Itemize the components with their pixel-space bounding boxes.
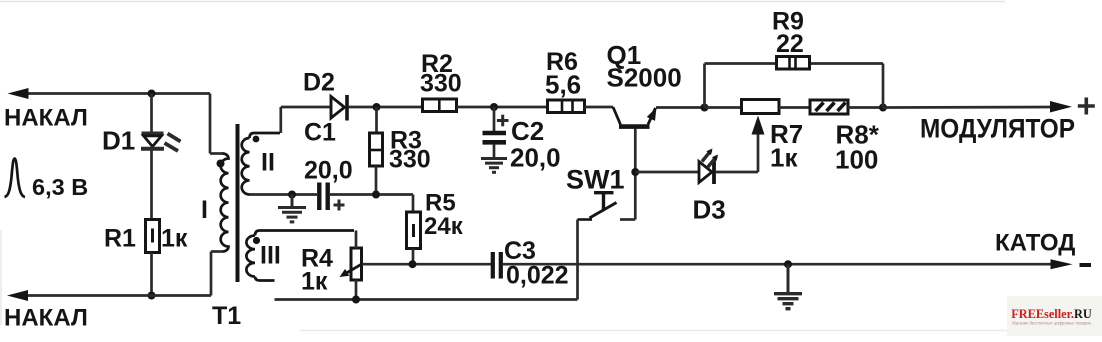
svg-text:FREEseller.RU: FREEseller.RU: [1011, 307, 1092, 321]
label R7: [770, 119, 803, 149]
node A junction top (D1 branch): [148, 90, 156, 98]
wire R4 top: [355, 231, 358, 249]
wire Q1 emitter to node G: [656, 106, 705, 109]
wire bottom NAKAL rail: [26, 294, 211, 297]
wire D3 cathode to R7 wiper: [716, 131, 759, 172]
wire C1 to node D: [330, 193, 413, 196]
svg-text:НАКАЛ: НАКАЛ: [4, 305, 88, 332]
label C3: [504, 237, 536, 265]
svg-text:II: II: [261, 149, 275, 177]
wire wiper line to C3: [362, 263, 491, 266]
resistor R6: [548, 100, 585, 113]
value S2000 (Q1): [607, 63, 682, 93]
plus mark (modulator): [1078, 98, 1095, 115]
label R4: [301, 245, 333, 273]
node L junction (R4 bottom): [352, 296, 360, 304]
wire modulator rail: [883, 106, 1052, 109]
label III: [260, 242, 281, 270]
label R6: [546, 48, 578, 76]
resistor R8 (selected): [810, 100, 848, 114]
svg-text:20,0: 20,0: [510, 143, 561, 173]
wire R1 to bottom rail: [150, 253, 153, 296]
value 5,6 (R6): [545, 70, 581, 100]
svg-text:Магазин бесплатных цифровых то: Магазин бесплатных цифровых товаров: [1012, 321, 1091, 326]
node C junction (D2/R2/R3): [373, 103, 381, 111]
R4 wiper arrow: [340, 264, 362, 277]
label I (primary winding): [201, 196, 208, 224]
plus mark (C1): [334, 200, 345, 211]
resistor R1: [146, 220, 160, 253]
transformer T1 secondary winding III: [246, 231, 354, 281]
wire top NAKAL rail: [26, 92, 210, 95]
diode D2: [331, 95, 347, 121]
value 22 (R9): [776, 30, 804, 58]
label R9: [772, 8, 804, 36]
plus mark (C2): [497, 115, 509, 127]
wire bottom rail (winding III to SW1): [275, 298, 578, 301]
svg-text:1к: 1к: [161, 225, 188, 253]
wire R4 bottom: [355, 280, 358, 300]
wire D2 to node C: [349, 106, 423, 109]
value 24к (R5): [424, 213, 464, 240]
wire winding II bottom line: [249, 193, 317, 196]
svg-text:SW1: SW1: [566, 165, 625, 195]
arrow МОДУЛЯТОР output: [1050, 101, 1072, 113]
label II: [261, 149, 275, 177]
label R1: [104, 225, 136, 253]
capacitor C2: [483, 133, 507, 142]
svg-text:22: 22: [776, 30, 804, 58]
svg-text:R1: R1: [104, 225, 136, 253]
value 20,0 (C2): [510, 143, 561, 173]
svg-text:1к: 1к: [301, 268, 328, 296]
svg-text:330: 330: [389, 146, 431, 174]
resistor R7 (variable): [742, 100, 780, 114]
wire D1 branch upper: [150, 94, 153, 133]
svg-text:D3: D3: [693, 195, 726, 225]
svg-text:МОДУЛЯТОР: МОДУЛЯТОР: [920, 114, 1075, 144]
wire C2 to ground: [493, 144, 496, 158]
label R8*: [836, 120, 880, 150]
node B junction bottom (R1 branch): [148, 292, 156, 300]
wire winding II to D2: [281, 107, 331, 133]
svg-text:1к: 1к: [770, 143, 798, 173]
svg-text:D2: D2: [303, 69, 335, 97]
svg-text:III: III: [260, 242, 281, 270]
wire SW1 right stub: [620, 218, 635, 221]
wire node C to R3: [375, 107, 378, 133]
value 100 (R8): [835, 145, 878, 175]
wire cathode rail: [503, 263, 1052, 266]
svg-text:6,3 В: 6,3 В: [32, 174, 88, 200]
LED D1 emission arrows: [165, 134, 181, 152]
wire D1 to R1: [150, 151, 153, 220]
value 1к (R1): [161, 225, 188, 253]
winding II polarity dot: [253, 136, 260, 143]
label T1: [212, 302, 241, 330]
label МОДУЛЯТОР: [920, 114, 1075, 144]
resistor R9: [777, 57, 810, 70]
svg-text:0,022: 0,022: [506, 262, 569, 290]
winding I polarity dot: [217, 160, 225, 168]
wire SW1 left to bottom rail: [576, 220, 579, 300]
switch SW1: [578, 193, 617, 220]
label Q1: [607, 40, 642, 70]
svg-text:24к: 24к: [424, 213, 464, 240]
winding III polarity dot: [253, 237, 260, 244]
svg-text:S2000: S2000: [607, 63, 682, 93]
node K junction (R5 bottom): [409, 260, 417, 268]
wire R5 bottom: [412, 249, 415, 265]
label SW1: [566, 165, 625, 195]
label НАКАЛ top: [4, 105, 88, 132]
wire Q1 base down: [634, 129, 637, 220]
svg-text:330: 330: [420, 70, 462, 98]
node M junction (ground tap): [784, 260, 792, 268]
transformer T1 primary winding I: [221, 154, 229, 252]
wire R6 to Q1: [585, 106, 614, 109]
arrow R7 wiper: [752, 116, 765, 135]
label 6,3 В: [32, 174, 88, 200]
LED D3 emission arrows: [702, 149, 718, 168]
wire primary bottom to rail: [211, 252, 224, 296]
svg-text:КАТОД: КАТОД: [995, 230, 1075, 257]
capacitor C3: [493, 252, 501, 279]
arrow КАТОД output: [1051, 259, 1073, 269]
value 1к (R4): [301, 268, 328, 296]
label НАКАЛ bottom: [4, 305, 88, 332]
label R3: [390, 127, 422, 155]
label R2: [421, 50, 453, 78]
diode D1 (LED): [141, 134, 164, 149]
svg-text:C2: C2: [511, 116, 544, 146]
label D3: [693, 195, 726, 225]
ground symbol (C1 / winding II): [278, 195, 306, 222]
wire D3 anode: [635, 171, 698, 174]
node D junction (R3 bottom): [372, 191, 380, 199]
label D2: [303, 69, 335, 97]
svg-text:20,0: 20,0: [304, 157, 353, 185]
wire top rail to primary: [210, 94, 224, 154]
value 1к (R7): [770, 143, 798, 173]
value 20,0 (C1): [304, 157, 353, 185]
wire C2 stub: [493, 107, 496, 131]
arrow NAKAL bottom (left output): [7, 290, 28, 301]
wire R9 loop: [705, 64, 884, 108]
diode D3 (LED): [699, 161, 714, 185]
wire R3 to node D: [375, 166, 378, 195]
wire node D to R5: [412, 195, 415, 213]
ground symbol (C2): [481, 158, 507, 173]
svg-text:I: I: [201, 196, 208, 224]
svg-text:5,6: 5,6: [545, 70, 581, 100]
svg-text:D1: D1: [102, 126, 135, 156]
svg-text:НАКАЛ: НАКАЛ: [4, 105, 88, 132]
resistor R2: [423, 99, 457, 112]
wire R2 to R6: [457, 106, 548, 109]
label КАТОД: [995, 230, 1075, 257]
pulse waveform symbol: [5, 159, 26, 198]
transformer T1 secondary winding II: [242, 133, 280, 194]
value 330 (R3): [389, 146, 431, 174]
value 0,022 (C3): [506, 262, 569, 290]
resistor R5: [407, 212, 421, 249]
label C1: [304, 119, 336, 147]
transistor Q1: [613, 107, 657, 127]
label R5: [425, 190, 456, 217]
minus mark (cathode): [1080, 263, 1092, 267]
svg-text:C1: C1: [304, 119, 336, 147]
value 330 (R2): [420, 70, 462, 98]
node H junction (base/D3): [631, 168, 639, 176]
resistor R3: [370, 133, 383, 166]
logo FREEseller.RU: [1007, 296, 1102, 336]
ground symbol (cathode rail): [774, 264, 802, 309]
svg-text:100: 100: [835, 145, 878, 175]
arrow NAKAL top (left output): [8, 88, 29, 99]
transformer T1 core bar: [236, 124, 240, 282]
wire node G to R7: [705, 106, 742, 109]
node E junction (ground tap): [288, 191, 296, 199]
svg-text:T1: T1: [212, 302, 241, 330]
node J junction (R9/output): [879, 104, 887, 112]
wire R8 to node J: [848, 106, 883, 109]
label C2: [511, 116, 544, 146]
resistor R4 (variable): [351, 248, 362, 280]
capacitor C1: [319, 183, 327, 211]
wire R7 to R8: [779, 106, 810, 109]
label D1: [102, 126, 135, 156]
node F junction (C2 tap): [490, 103, 498, 111]
node G junction (emitter/R9/R7): [701, 104, 709, 112]
